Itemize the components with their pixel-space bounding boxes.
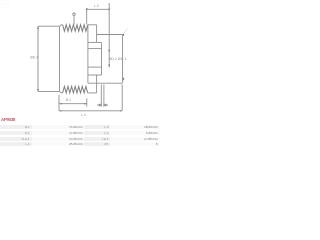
diameter leader circle bbox=[73, 13, 75, 15]
dimension L1 line bbox=[59, 110, 122, 112]
B1 right extension bbox=[86, 99, 88, 107]
spec table row 4 bbox=[0, 142, 160, 146]
svg-text:ØD.1: ØD.1 bbox=[30, 56, 38, 60]
hub corner mark bottom bbox=[123, 77, 125, 80]
outer face top segment bbox=[96, 25, 98, 43]
dimension OD1 arrow bottom bbox=[37, 89, 39, 92]
rim bottom flat left bbox=[61, 92, 63, 94]
hub end face bbox=[122, 35, 124, 84]
extension line bottom bbox=[38, 90, 59, 92]
B1 arrow right bbox=[85, 103, 87, 105]
small dim extension a bbox=[100, 85, 102, 107]
extension line top bbox=[38, 25, 59, 27]
rim top flat right bbox=[88, 24, 97, 26]
rim bottom flat right bbox=[88, 92, 97, 94]
small dim extension b bbox=[103, 85, 105, 107]
svg-text:L.1: L.1 bbox=[81, 113, 86, 117]
svg-text:L.2: L.2 bbox=[94, 4, 99, 8]
svg-text:ØD.1: ØD.1 bbox=[118, 57, 127, 61]
L2 right extension / ID2 dimension line bbox=[108, 3, 110, 67]
spec table row 1 bbox=[0, 125, 160, 129]
spec table row 3 bbox=[0, 137, 160, 141]
recess shoulder bottom bbox=[88, 74, 102, 76]
L1 arrow right bbox=[120, 110, 122, 112]
diameter leader line bbox=[73, 15, 75, 24]
L1 right extension bbox=[121, 85, 123, 111]
ribs zigzag top bbox=[63, 25, 88, 32]
small dim arrow left bbox=[97, 104, 101, 106]
faint top-left watermark bars bbox=[0, 1, 9, 8]
pulley left face bbox=[59, 26, 61, 91]
hub top bbox=[97, 34, 123, 36]
hub bottom bbox=[88, 82, 123, 84]
ID2 arrow down bbox=[108, 65, 110, 68]
bore bottom bbox=[88, 66, 102, 68]
dimension OD1 arrow top bbox=[37, 26, 39, 29]
ribs zigzag bottom bbox=[63, 86, 88, 93]
rim top flat left bbox=[61, 24, 63, 26]
web right face bbox=[87, 25, 89, 83]
recess back wall bbox=[101, 42, 103, 75]
spec table row 2 bbox=[0, 131, 160, 135]
bore top bbox=[88, 48, 102, 50]
svg-text:ØD.2: ØD.2 bbox=[109, 57, 117, 61]
dimension L2 line bbox=[87, 8, 110, 10]
small dim arrow right bbox=[104, 104, 108, 106]
hub corner mark top bbox=[122, 34, 124, 36]
dimension OD1 line (left vertical) bbox=[37, 26, 39, 91]
chamfer bottom-left bbox=[60, 91, 62, 93]
B1 left extension bbox=[58, 95, 60, 111]
svg-text:B.1: B.1 bbox=[66, 98, 71, 102]
pulley technical drawing bbox=[0, 0, 160, 120]
B1 arrow left bbox=[60, 103, 62, 105]
L2 left extension line bbox=[86, 8, 88, 24]
ID2 arrow up bbox=[108, 49, 110, 52]
red product code bbox=[1, 117, 15, 122]
L2 tick right bbox=[109, 8, 110, 10]
recess shoulder top bbox=[88, 41, 102, 43]
dimension B1 line bbox=[59, 103, 86, 105]
outer face bottom segment bbox=[96, 75, 98, 93]
L2 tick left bbox=[86, 8, 87, 10]
chamfer top-left bbox=[60, 25, 62, 27]
L1 arrow left bbox=[59, 110, 61, 112]
